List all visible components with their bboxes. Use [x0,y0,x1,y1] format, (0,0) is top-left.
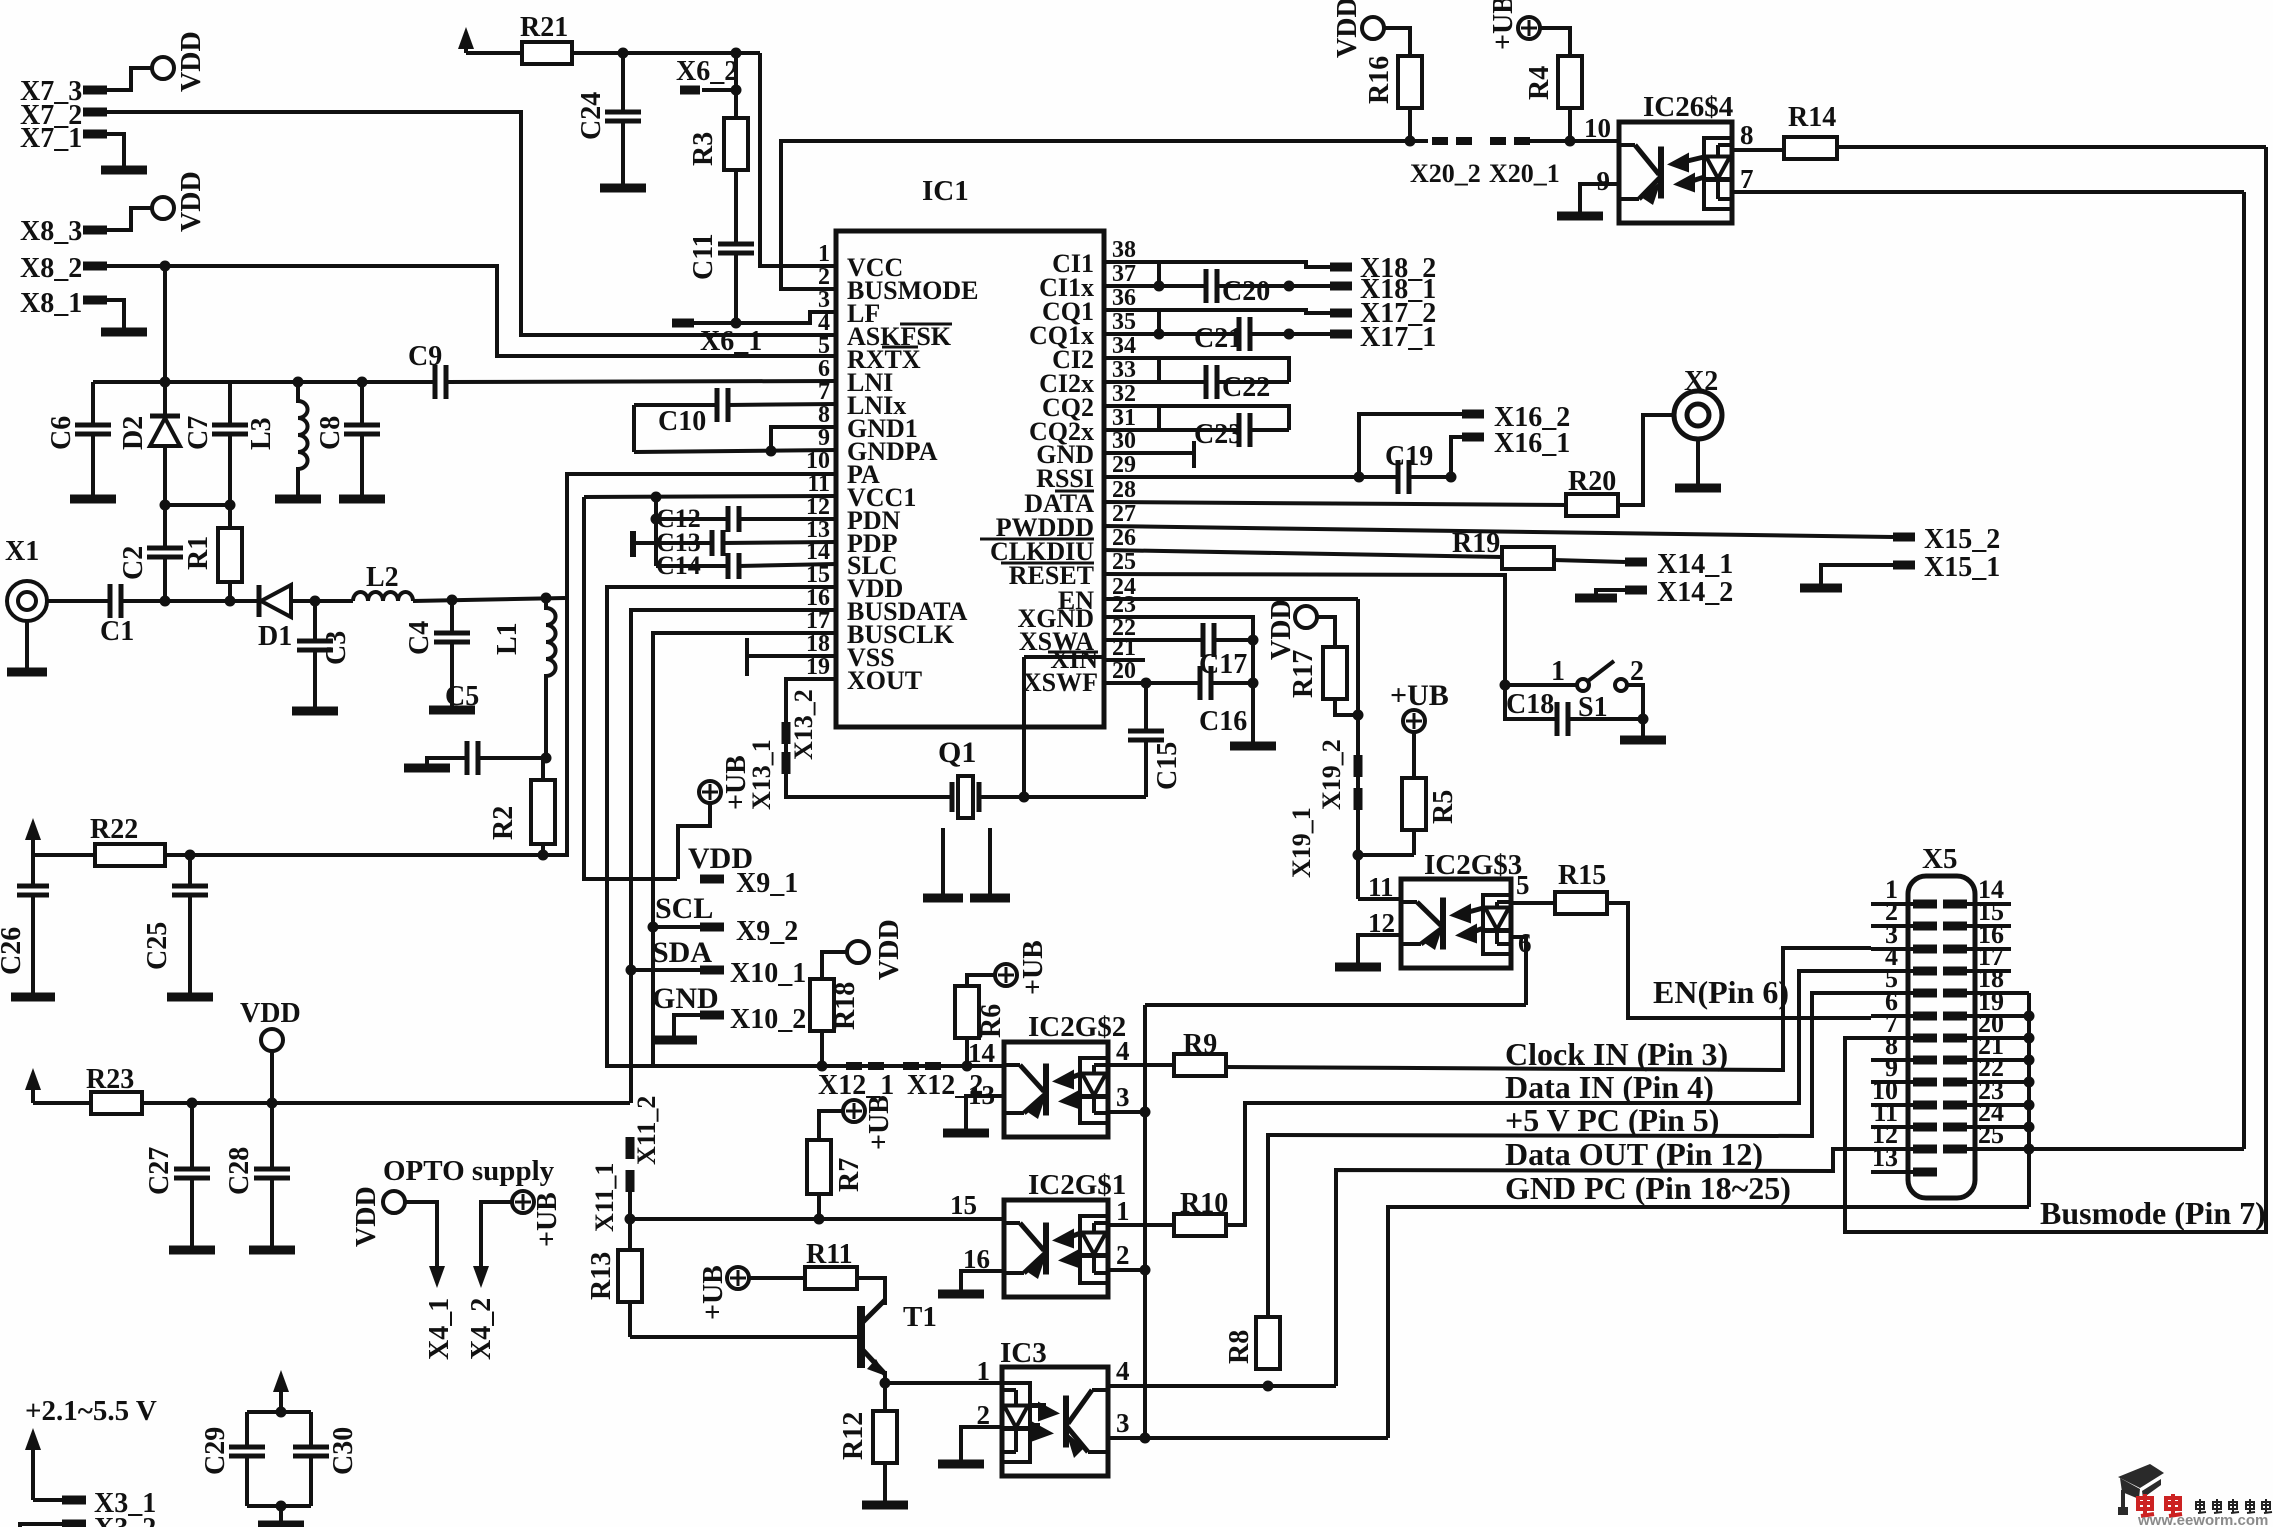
svg-text:+UB: +UB [1390,679,1449,712]
svg-text:C14: C14 [656,551,701,580]
svg-text:VDD: VDD [176,171,207,232]
resistor R14 [1784,137,1837,159]
svg-text:X14_2: X14_2 [1657,577,1733,608]
ground (X1) [7,668,47,677]
svg-text:38: 38 [1112,237,1136,263]
svg-text:C26: C26 [0,927,27,975]
wire C9 to LNI pin 6 [446,381,836,382]
svg-text:X9_1: X9_1 [736,868,798,899]
svg-text:X16_1: X16_1 [1494,428,1570,459]
resistor R12 [873,1411,897,1463]
svg-text:X6_1: X6_1 [700,326,762,357]
wire R13 to base [628,1302,632,1337]
capacitor C30 [309,1412,313,1447]
svg-text:www.eeworm.com: www.eeworm.com [2137,1512,2268,1527]
ground [970,894,1010,903]
svg-text:X14_1: X14_1 [1657,549,1733,580]
power terminal VDD (R18) [847,941,869,963]
capacitor C15 [1144,683,1148,731]
svg-text:R6: R6 [976,1004,1007,1038]
resistor R18 [810,979,834,1031]
ground [923,894,963,903]
resistor R8 [1256,1317,1280,1369]
resistor R5 [1412,731,1416,778]
svg-text:R14: R14 [1788,102,1836,133]
wire Clock IN [1226,948,1871,1070]
jumper pad X13_2 [782,722,791,744]
svg-text:C16: C16 [1199,706,1247,737]
node SCL [648,922,659,933]
wire pin 2 [961,1427,1002,1460]
wire [967,975,995,986]
svg-text:5: 5 [1516,870,1530,900]
wire GNDPA pin9 [634,450,836,452]
wire R15 to X5 pin 6 (EN) [1607,903,1871,1018]
capacitor C12 [654,497,658,519]
svg-text:XSWF: XSWF [1023,668,1098,697]
svg-text:+UB: +UB [1018,940,1049,995]
wire [291,599,353,603]
svg-text:X9_2: X9_2 [736,916,798,947]
node C7 bottom [225,500,236,511]
top rail [93,380,435,384]
ground (C8) [339,495,385,504]
node X8_2 / D2 [160,261,171,272]
X5 pin 22 [1943,1078,1967,1087]
node X6_1 [731,318,742,329]
op-amp/ASIC IC1 box [836,231,1104,727]
wire base [630,1335,861,1339]
resistor R4 [1558,56,1582,108]
wire DATA pin28 [1104,502,1566,505]
wire D2 rail riser [163,266,167,382]
node C16 right [1248,678,1259,689]
wire pin 1 [885,1381,1002,1385]
svg-text:L3: L3 [246,417,277,450]
svg-text:26: 26 [1112,525,1136,551]
svg-text:C28: C28 [224,1147,255,1195]
node C17 right [1248,635,1259,646]
capacitor C24 [621,53,625,112]
svg-text:X1: X1 [5,536,39,567]
X5 pin 17 [1943,967,1967,976]
wire [247,1410,311,1414]
stub 34-33 [1157,358,1161,382]
wire [107,68,152,90]
node [1284,329,1295,340]
svg-text:R9: R9 [1183,1029,1217,1060]
svg-text:VDD: VDD [176,31,207,92]
jumper pad X11_2 [626,1137,635,1159]
svg-text:C3: C3 [321,631,352,665]
svg-text:+UB: +UB [698,1265,729,1320]
wire VDD pin15 riser [607,587,836,1066]
power terminal +UB (R7) [843,1100,865,1122]
jumper pad X20_2 [1432,137,1448,145]
resistor R1 [228,505,232,528]
wire / arrow X4_1 [405,1202,437,1216]
wire +UB to X9_1 [678,803,710,879]
svg-text:X4_2: X4_2 [466,1298,497,1360]
X5 pin 5 [1871,991,1913,995]
svg-text:X19_2: X19_2 [1317,739,1346,810]
stub 32-31 [1157,406,1161,430]
wire [121,599,259,603]
arrow supply (X3) [31,1442,35,1500]
wire pin 4 / Data OUT [1108,1384,1336,1388]
connector pad X9_2 [700,923,724,932]
wire [25,621,29,668]
ground (X15_1) [1800,584,1842,593]
jumper pad X19_2 [1354,755,1363,777]
capacitor C25 [188,855,192,886]
inductor L2 [353,592,413,601]
svg-text:Data IN (Pin 4): Data IN (Pin 4) [1505,1069,1714,1105]
node R5 [1353,850,1364,861]
wire [33,1101,91,1105]
ground (X2) [1675,484,1721,493]
jumper pad X12_1 [846,1062,862,1070]
svg-text:IC2G$3: IC2G$3 [1424,849,1522,881]
X5 ground bus pins 18-25 [2027,993,2031,1207]
wire [1821,565,1893,584]
ground (X7_1) [101,166,147,175]
svg-text:16: 16 [963,1244,990,1274]
svg-text:7: 7 [1740,164,1754,194]
capacitor C4 [450,600,454,633]
connector pad X18_1 [1289,284,1330,288]
svg-text:C11: C11 [688,233,719,280]
connector pad X7_2 [83,108,107,117]
svg-text:IC26$4: IC26$4 [1643,91,1733,123]
wire CQ2x pin31 / capacitor C23 [1104,428,1239,432]
ground (pin9) [1557,212,1603,221]
power terminal +UB (R4) [1518,17,1540,39]
svg-text:13: 13 [1872,1143,1898,1172]
wire BUSCLK to X12 [653,1064,842,1068]
ground (C4) [429,706,475,715]
wire CQ1x pin35 [1104,332,1239,336]
ground (IC3 pin2) [938,1460,984,1469]
node D2 top [160,377,171,388]
svg-text:X11_1: X11_1 [590,1163,619,1232]
wire [1358,853,1414,857]
X5 pin 15 [1943,922,1967,931]
svg-text:3: 3 [1116,1082,1130,1112]
svg-text:D1: D1 [258,621,292,652]
svg-text:C1: C1 [100,616,134,647]
capacitor C14 [654,519,658,566]
jumper pad X13_1 [782,752,791,774]
wire IC26$4 pin7 riser [2242,192,2246,1149]
resistor R17 [1323,647,1347,699]
connector pad X14_1 [1625,558,1647,567]
power terminal +UB (R11) [727,1267,749,1289]
svg-text:6: 6 [1518,928,1532,958]
svg-text:+UB: +UB [864,1095,895,1150]
wire pin 5 [1511,901,1555,905]
svg-text:37: 37 [1112,261,1136,287]
svg-text:C25: C25 [142,922,173,970]
wire opto output bus [1145,1003,1526,1007]
wire EN pin24 [1104,597,1358,601]
resistor R3 [724,118,748,170]
node C27 [187,1098,198,1109]
switch S1 [1505,683,1577,687]
wire XOUT pin19 to X13 [786,679,952,797]
resistor R6 [955,986,979,1038]
jumper pad X19_1 [1354,788,1363,810]
svg-text:14: 14 [968,1038,995,1068]
X5 pin 7 [1871,1036,1913,1040]
svg-text:R17: R17 [1288,650,1319,698]
node X6_2 [731,48,742,59]
wire [820,1031,824,1066]
X5 pin 12 [1871,1147,1913,1151]
svg-text:L1: L1 [492,622,523,655]
svg-text:+5 V PC (Pin 5): +5 V PC (Pin 5) [1505,1102,1719,1138]
node crystal / notch [1019,792,1030,803]
resistor R13 [628,1192,632,1250]
svg-text:C19: C19 [1385,441,1433,472]
wire [247,1504,311,1508]
svg-text:X10_2: X10_2 [730,1004,806,1035]
wire CI2x pin33 / capacitor C22 [1104,380,1206,384]
svg-text:X10_1: X10_1 [730,958,806,989]
wire crystal right [979,795,1146,799]
watermark logo [2118,1464,2164,1515]
resistor R23 [91,1092,142,1114]
wire BUSMODE to IC26$4 [781,141,1428,289]
svg-text:IC3: IC3 [1000,1337,1047,1369]
connector pad X6_2 [680,86,700,95]
connector pad X16_1 [1462,433,1484,442]
svg-text:C10: C10 [658,406,706,437]
wire pin15 line [629,1217,1004,1221]
resistor R2 [541,758,545,780]
capacitor C9 [433,365,438,399]
wire R19 to X14_1 [1554,560,1625,562]
X5 pin 3 [1871,947,1913,951]
wire pin 8 [1732,148,1784,152]
lower rail D2/C7 [165,503,230,507]
svg-text:2: 2 [977,1400,991,1430]
svg-text:SDA: SDA [652,936,712,969]
svg-text:R16: R16 [1364,56,1395,104]
svg-text:C15: C15 [1152,742,1183,790]
svg-text:X4_1: X4_1 [424,1298,455,1360]
wire CI1x pin37 [1104,284,1206,288]
wire XSWF pin20 [1104,681,1200,685]
svg-text:GND: GND [652,982,719,1015]
svg-text:R19: R19 [1452,528,1500,559]
stub VSS pin18 [747,654,836,658]
svg-text:R1: R1 [183,536,214,570]
capacitor C18 [1505,685,1557,719]
wire XSWA pin22 [1104,638,1203,642]
svg-text:29: 29 [1112,452,1136,478]
svg-text:X8_1: X8_1 [20,288,82,319]
wire to X16_2 [1359,414,1462,477]
svg-text:X15_2: X15_2 [1924,524,2000,555]
X5 pin 11 [1871,1125,1913,1129]
capacitor C7 [228,382,232,425]
capacitor C28 [270,1103,274,1169]
wire [1696,439,1700,484]
svg-text:C21: C21 [1194,323,1242,354]
ground (C28) [249,1246,295,1255]
stub 36-35 [1157,310,1161,334]
svg-text:+UB: +UB [1488,0,1519,50]
svg-text:C6: C6 [46,416,77,450]
ground (X10_2) [651,1036,697,1045]
svg-text:X8_2: X8_2 [20,253,82,284]
wire XGND pin23 riser [1104,617,1253,742]
wire [544,684,548,758]
ground (C24) [600,184,646,193]
X5 pin 21 [1943,1056,1967,1065]
wire bus corner [1143,1005,1147,1438]
svg-text:13: 13 [968,1080,995,1110]
wire VCC1 pin11 [584,496,836,497]
svg-text:X20_2: X20_2 [1410,159,1481,188]
svg-text:25: 25 [1978,1120,2004,1149]
inductor L3 [293,377,304,388]
X5 pin 9 [1871,1080,1913,1084]
wire VCC1 riser to X9_1 [584,497,677,879]
svg-text:X19_1: X19_1 [1287,807,1316,878]
svg-text:C20: C20 [1222,276,1270,307]
X5 pin 1 [1871,902,1913,906]
node C2 [160,596,171,607]
svg-text:X15_1: X15_1 [1924,552,2000,583]
wire Data IN [1226,971,1871,1225]
ground (C29/C30) [258,1521,304,1527]
resistor R20 [1566,494,1618,516]
power terminal +UB (X9) [699,781,721,803]
node R8 bottom [1263,1381,1274,1392]
wire SCL [653,925,700,929]
svg-text:IC2G$2: IC2G$2 [1028,1011,1126,1043]
arrow supply (R23) [31,1082,35,1103]
node SDA [626,965,637,976]
svg-text:X11_2: X11_2 [632,1096,661,1165]
wire [572,51,760,55]
wire Busmode [1845,147,2266,1232]
power terminal VDD (X4_1) [383,1191,405,1213]
svg-text:VDD: VDD [874,919,905,980]
wire pin 3 / GND PC [1108,1436,1388,1440]
capacitor C5 [478,756,546,760]
resistor R16 [1398,56,1422,108]
svg-text:C29: C29 [200,1427,231,1475]
svg-text:R10: R10 [1180,1188,1228,1219]
svg-text:32: 32 [1112,381,1136,407]
node C24 [618,48,629,59]
power terminal VDD (R16) [1362,17,1384,39]
ground (C27) [169,1246,215,1255]
watermark text 虫虫 (vector) [2138,1494,2154,1516]
svg-text:34: 34 [1112,333,1136,359]
svg-text:D2: D2 [118,416,149,450]
svg-text:C22: C22 [1222,372,1270,403]
X5 pin 8 [1871,1058,1913,1062]
wire pin 7 [1732,190,2244,194]
wire CI1 pin38 [1104,262,1330,267]
wire [20,1524,62,1527]
power terminal +UB (R5) [1403,710,1425,732]
opto-coupler IC2G$3 [1401,879,1511,968]
arrow supply (C29/C30) [279,1384,283,1412]
capacitor C1 [108,584,113,618]
wire / arrow X4_2 [481,1202,512,1216]
resistor R7 [807,1140,831,1194]
svg-text:+UB: +UB [532,1192,563,1247]
wire [965,1038,969,1066]
ground (S1/C18) [1620,736,1666,745]
svg-text:+2.1~5.5 V: +2.1~5.5 V [25,1395,157,1427]
wire [1335,699,1358,715]
svg-text:R7: R7 [834,1158,865,1192]
svg-text:VDD: VDD [351,1186,382,1247]
ground (X8_1) [101,328,147,337]
wire [1530,139,1619,143]
svg-text:27: 27 [1112,501,1136,527]
connector pad X3_1 [62,1496,86,1505]
ground (C5) [404,764,450,773]
resistor R10 [1174,1214,1226,1236]
arrow supply (R21) [464,41,468,53]
power terminal VDD (C28) [261,1029,283,1051]
svg-text:X6_2: X6_2 [676,56,738,87]
wire [413,598,565,601]
svg-text:10: 10 [1584,113,1611,143]
wire [822,952,847,979]
connector pad X14_2 [1625,586,1647,595]
capacitor C11 [734,170,738,244]
X5 pin 16 [1943,945,1967,954]
svg-text:8: 8 [1740,120,1754,150]
wire PWDDD pin27 to X15_2 [1104,526,1893,537]
jumper pad X20_1 [1490,137,1506,145]
stub ground right (load cap) [988,828,992,894]
svg-text:X17_1: X17_1 [1360,322,1436,353]
svg-text:R4: R4 [1524,66,1555,100]
X5 pin 19 [1943,1012,1967,1021]
wire pin 13 [966,1096,1004,1129]
svg-text:C23: C23 [1194,419,1242,450]
svg-text:C2: C2 [118,546,149,580]
opto-coupler IC3 [1002,1367,1108,1476]
watermark text 电子下载站 (vector) [2196,1499,2206,1513]
svg-text:C17: C17 [1199,649,1247,680]
wire RSSI pin29 [1104,475,1398,479]
svg-text:R13: R13 [586,1252,617,1300]
svg-text:T1: T1 [903,1301,937,1333]
wire [857,1278,885,1305]
svg-text:L2: L2 [366,562,399,593]
power terminal +UB (R6) [995,964,1017,986]
X5 pin 6 [1871,1014,1913,1018]
connector pad X9_1 [700,875,724,884]
svg-text:3: 3 [1116,1408,1130,1438]
X5 pin 14 [1943,900,1967,909]
svg-text:1: 1 [1116,1196,1130,1226]
power terminal +UB (X4_2) [512,1191,534,1213]
resistor R22 [95,844,165,866]
crystal Q1 [950,782,955,812]
stub ground left (load cap) [941,828,945,894]
